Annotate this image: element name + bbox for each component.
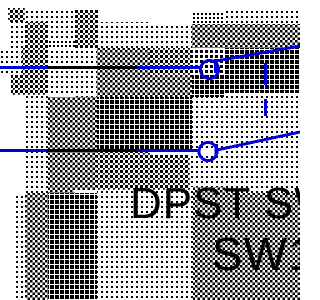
switch SW1 pole-1 contact tick <box>214 59 218 73</box>
svg-text:SW1: SW1 <box>212 228 300 280</box>
switch SW1 pole-1 lever <box>216 46 300 61</box>
switch SW1 mechanical link (dashed), dash 1 <box>264 63 267 85</box>
wire (pole 2, left blue segment) <box>0 149 47 152</box>
switch SW1 mechanical link (dashed), dash 2 <box>264 99 267 116</box>
wire (pole 2, black segment) <box>47 149 137 152</box>
switch SW1 pole-2 contact circle <box>199 143 217 161</box>
switch SW1 pole-2 lever <box>217 132 300 150</box>
switch SW1 pole-2 contact tick <box>215 144 219 155</box>
switch SW1 pole-1 contact circle <box>201 61 219 79</box>
wire (pole 1, right blue segment to switch) <box>137 66 200 69</box>
wire (pole 1, left blue segment) <box>0 66 47 69</box>
svg-text:DPST SWITCH: DPST SWITCH <box>130 179 300 228</box>
wire (pole 2, right blue segment to switch) <box>137 149 199 152</box>
wire (pole 1, black segment) <box>47 66 137 69</box>
